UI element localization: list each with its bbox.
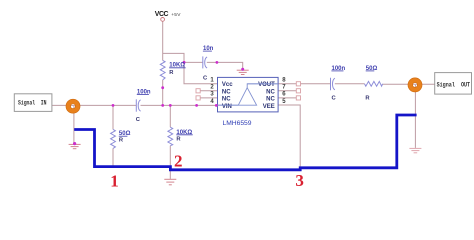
wire R3 net stub through bus to ground G3 [169, 169, 171, 179]
svg-text:Vcc: Vcc [222, 82, 233, 88]
junction node at 10n right [216, 61, 219, 64]
junction node input net at R3 [169, 104, 172, 107]
wire VCC corner to node A [163, 53, 184, 62]
ground G1 under left ring [69, 144, 81, 148]
wire pin 5 VEE down to blue gnd bus [278, 105, 300, 169]
capacitor C3 100n output [331, 78, 335, 91]
wire R4 to right ring [383, 83, 435, 85]
NC square pin 8 [296, 82, 300, 86]
wire pin 8 to C3 [278, 83, 330, 85]
Signal OUT port box [435, 73, 472, 95]
wire R1 bottom to input net [162, 80, 164, 106]
wire R2 bottom to blue gnd bus [112, 148, 114, 166]
resistor R4 50 output series [365, 81, 383, 86]
label R1 value 10K [169, 63, 185, 76]
NC square pin 2 [196, 89, 200, 93]
connector ring right [408, 78, 422, 92]
label C3 value 100n [331, 66, 345, 102]
wire node A to C2 [184, 61, 203, 63]
wire C1 right plate to IC pin 4 [141, 104, 218, 106]
pin 2 stub NC [198, 90, 217, 92]
svg-text:3: 3 [295, 171, 304, 190]
ground G3 bottom center [164, 179, 176, 185]
svg-text:2: 2 [174, 151, 183, 170]
svg-text:VCC: VCC [155, 11, 169, 18]
wire node to R3 top [169, 105, 171, 127]
resistor R2 50 input termination [111, 129, 116, 148]
wire R3 bottom to blue gnd bus [169, 146, 171, 169]
Signal IN port box [14, 94, 52, 112]
svg-text:VOUT: VOUT [258, 82, 275, 88]
wire C3 to R4 [335, 83, 365, 85]
junction node A [183, 61, 186, 64]
pin 7 stub NC [278, 90, 298, 92]
junction node at pin 4 end [195, 104, 198, 107]
wire Signal IN to ring [52, 104, 136, 106]
wire right ring down to ground G4 [414, 85, 416, 148]
pin 3 stub NC [198, 97, 217, 99]
ground bus thick blue wire [74, 115, 416, 170]
wire VCC down [162, 21, 164, 60]
svg-text:NC: NC [222, 96, 231, 102]
junction node input net at R1 [161, 104, 164, 107]
ground G2 near 10n cap [237, 70, 249, 74]
VCC power symbol [155, 11, 181, 21]
svg-text:Signal OUT: Signal OUT [437, 81, 471, 88]
svg-text:+5V: +5V [171, 12, 181, 18]
capacitor C1 100n input [136, 99, 140, 111]
label R3 value 10K [176, 130, 192, 143]
NC square pin 7 [296, 89, 300, 93]
junction node at IC edge pin 4 [215, 104, 218, 107]
svg-text:VIN: VIN [222, 104, 232, 110]
svg-text:NC: NC [266, 89, 275, 95]
capacitor C2 10n [203, 56, 207, 68]
label C2 value 10n [203, 46, 214, 82]
wire node A down to pin 1 [184, 62, 218, 83]
label C1 value 100n [136, 90, 151, 123]
svg-text:LMH6559: LMH6559 [223, 120, 252, 127]
junction node on input net at R2 [112, 104, 115, 107]
svg-text:VEE: VEE [263, 104, 275, 110]
resistor R3 10K pulldown [168, 127, 173, 146]
wire node to R2 top [112, 105, 114, 129]
op-amp U1 LMH6559 box [218, 77, 279, 112]
junction node at R1 bottom [161, 86, 164, 89]
NC square pin 3 [196, 96, 200, 100]
connector ring left [66, 99, 80, 113]
NC square pin 6 [296, 96, 300, 100]
svg-text:Signal IN: Signal IN [18, 100, 47, 107]
resistor R1 10K pullup [160, 60, 165, 80]
label R4 value 50 [365, 66, 377, 102]
wire C2 to ground G2 [207, 62, 243, 69]
svg-text:NC: NC [266, 96, 275, 102]
svg-text:1: 1 [110, 171, 119, 190]
wire left ring down to ground [73, 106, 75, 144]
ground G4 bottom right [409, 148, 421, 152]
label R2 value 50 [119, 131, 131, 143]
svg-text:NC: NC [222, 89, 231, 95]
pin 6 stub NC [278, 97, 298, 99]
